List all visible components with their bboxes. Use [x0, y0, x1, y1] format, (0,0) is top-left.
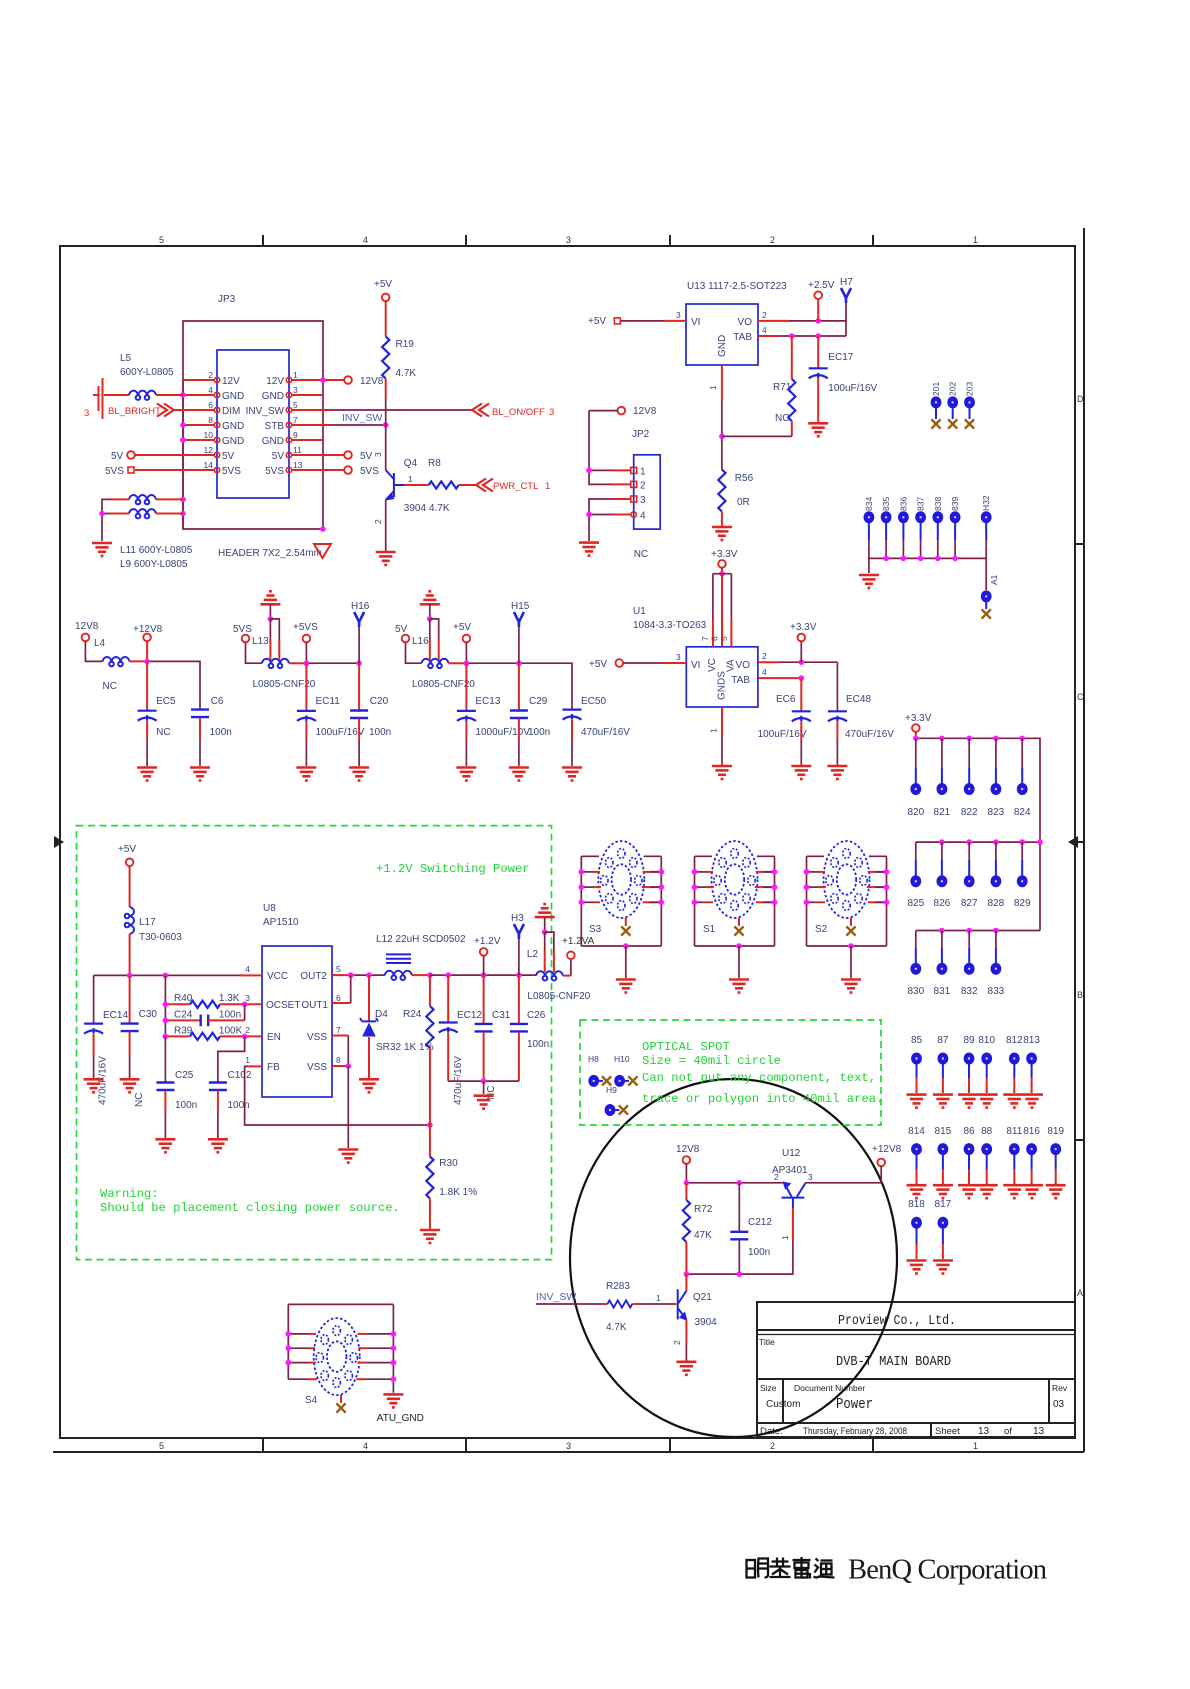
- svg-text:C26: C26: [527, 1010, 546, 1021]
- wire +12V8 rail: [144, 659, 200, 711]
- svg-text:85: 85: [911, 1035, 923, 1046]
- svg-text:GND: GND: [262, 391, 284, 402]
- capacitor EC17: [809, 336, 878, 422]
- svg-text:JP3: JP3: [218, 294, 236, 305]
- IC U8 AP1510: [245, 903, 341, 1097]
- wire VCC rail: [94, 973, 262, 1037]
- off-page connector BL_BRIGHT: [84, 378, 174, 419]
- svg-text:822: 822: [961, 807, 978, 818]
- svg-text:L17: L17: [139, 917, 156, 928]
- svg-text:C: C: [1077, 692, 1084, 702]
- svg-text:2: 2: [640, 481, 646, 492]
- svg-text:3: 3: [676, 310, 681, 320]
- test point H8: [588, 1054, 611, 1087]
- wire JP2 pins 1-2 to 12VS: [586, 411, 631, 485]
- port 12V8 (bottom): [676, 1144, 700, 1164]
- svg-text:STB: STB: [265, 421, 285, 432]
- capacitor EC50: [563, 696, 631, 766]
- svg-text:B: B: [1077, 990, 1083, 1000]
- ground under Q4: [376, 552, 396, 565]
- svg-text:C24: C24: [174, 1010, 193, 1021]
- svg-text:+2.5V: +2.5V: [808, 280, 835, 291]
- svg-text:88: 88: [981, 1126, 993, 1137]
- port 5VS: [233, 624, 252, 642]
- svg-text:U12: U12: [782, 1148, 801, 1159]
- test point 815: [933, 1126, 953, 1198]
- inductor L11: [110, 495, 183, 504]
- svg-text:100n: 100n: [527, 1039, 549, 1050]
- svg-text:1.3K: 1.3K: [219, 993, 240, 1004]
- svg-text:5VS: 5VS: [360, 466, 379, 477]
- wire +3.3V to U1 top pins: [700, 568, 731, 647]
- svg-text:2: 2: [770, 235, 775, 245]
- wire STB row: [330, 422, 389, 428]
- wire U1 GND pin1: [709, 707, 723, 765]
- svg-text:VSS: VSS: [307, 1032, 327, 1043]
- regulator U13: [686, 281, 787, 365]
- svg-text:2: 2: [672, 1340, 682, 1345]
- svg-text:823: 823: [988, 807, 1005, 818]
- test point 87: [933, 1035, 953, 1108]
- svg-text:S3: S3: [589, 924, 602, 935]
- svg-text:U8: U8: [263, 903, 276, 914]
- test pin H16: [351, 601, 370, 663]
- test point 810: [978, 1035, 995, 1093]
- socket S1: [692, 841, 778, 993]
- wire U13 VO pin2: [758, 310, 846, 324]
- test point 828: [988, 875, 1005, 909]
- svg-text:834: 834: [864, 497, 874, 511]
- test point 811: [1006, 1126, 1022, 1184]
- svg-text:3: 3: [293, 385, 298, 395]
- svg-text:600Y-L0805: 600Y-L0805: [120, 367, 174, 378]
- svg-text:3: 3: [676, 652, 681, 662]
- capacitor EC48: [828, 662, 894, 765]
- svg-text:1: 1: [656, 1293, 661, 1303]
- ground under EC13: [456, 768, 476, 781]
- svg-text:BenQ Corporation: BenQ Corporation: [848, 1555, 1047, 1586]
- svg-text:814: 814: [908, 1126, 925, 1137]
- wire +1.2V rail: [430, 972, 536, 978]
- svg-text:14: 14: [204, 460, 214, 470]
- optical spot circle: [570, 1079, 897, 1437]
- test point 201: [931, 382, 942, 429]
- capacitor C24: [163, 1004, 245, 1026]
- svg-text:Should be placement closing po: Should be placement closing power source…: [100, 1201, 400, 1215]
- test point 814: [907, 1126, 927, 1198]
- test point 836: [898, 497, 909, 540]
- svg-text:T30-0603: T30-0603: [139, 932, 182, 943]
- wire INV_SW to R283: [536, 1303, 607, 1305]
- transistor U12: [772, 1148, 813, 1240]
- svg-text:3: 3: [808, 1172, 813, 1182]
- wire test grid rail 3: [916, 928, 1040, 963]
- svg-text:100K: 100K: [219, 1026, 243, 1037]
- svg-text:Size = 40mil circle: Size = 40mil circle: [642, 1054, 781, 1068]
- svg-text:5VS: 5VS: [265, 466, 284, 477]
- svg-text:4.7K: 4.7K: [396, 368, 417, 379]
- wire +5VS rail: [304, 660, 362, 711]
- svg-text:AP1510: AP1510: [263, 917, 299, 928]
- svg-text:Proview Co., Ltd.: Proview Co., Ltd.: [838, 1313, 956, 1329]
- test point H10: [614, 1054, 638, 1087]
- socket S4: [286, 1304, 424, 1424]
- svg-text:1: 1: [640, 467, 646, 478]
- svg-text:100uF/16V: 100uF/16V: [316, 727, 365, 738]
- svg-text:100n: 100n: [219, 1010, 241, 1021]
- svg-text:819: 819: [1047, 1126, 1064, 1137]
- regulator U1: [633, 606, 758, 707]
- svg-text:10: 10: [204, 430, 214, 440]
- svg-text:H8: H8: [588, 1054, 599, 1064]
- svg-text:1.8K 1%: 1.8K 1%: [439, 1187, 477, 1198]
- test pin H7: [840, 277, 853, 336]
- svg-text:EC6: EC6: [776, 694, 796, 705]
- svg-text:NC: NC: [634, 549, 648, 560]
- svg-text:813: 813: [1023, 1035, 1040, 1046]
- wire JP2 pins 3-4 to ground: [586, 499, 631, 541]
- svg-text:4: 4: [640, 511, 646, 522]
- ground under EC5: [137, 768, 157, 781]
- svg-text:03: 03: [1053, 1399, 1065, 1410]
- svg-text:BL_BRIGHT: BL_BRIGHT: [108, 406, 161, 417]
- svg-text:5: 5: [336, 964, 341, 974]
- svg-text:trace or polygon into 40mil ar: trace or polygon into 40mil area.: [642, 1092, 883, 1106]
- power port +3.3V (test grid): [905, 713, 932, 738]
- svg-text:5VS: 5VS: [233, 624, 252, 635]
- svg-text:NC: NC: [775, 413, 789, 424]
- test point 827: [961, 875, 978, 909]
- svg-text:L11 600Y-L0805: L11 600Y-L0805: [120, 545, 193, 556]
- svg-text:4: 4: [208, 385, 213, 395]
- svg-text:OUT1: OUT1: [301, 1000, 328, 1011]
- svg-text:Rev: Rev: [1052, 1383, 1068, 1393]
- svg-text:U13 1117-2.5-SOT223: U13 1117-2.5-SOT223: [687, 281, 787, 292]
- port 12V8: [75, 621, 99, 641]
- svg-text:1: 1: [973, 235, 978, 245]
- power port +2.5V: [808, 280, 835, 321]
- svg-text:3: 3: [245, 993, 250, 1003]
- svg-text:100n: 100n: [210, 727, 232, 738]
- inductor L4: [85, 638, 147, 692]
- shared ground 812 813: [1003, 1095, 1043, 1108]
- svg-text:3904: 3904: [695, 1317, 718, 1328]
- svg-text:831: 831: [934, 986, 951, 997]
- capacitor EC6: [758, 678, 811, 765]
- svg-text:3: 3: [640, 495, 646, 506]
- svg-text:NC: NC: [156, 727, 170, 738]
- svg-text:827: 827: [961, 898, 978, 909]
- resistor R40: [163, 993, 262, 1008]
- svg-text:13: 13: [978, 1426, 990, 1437]
- test pin H3: [511, 913, 524, 975]
- green dashed box optical spot: [580, 1020, 881, 1125]
- svg-text:203: 203: [965, 382, 975, 396]
- inductor L16: [406, 616, 476, 690]
- svg-text:H9: H9: [606, 1085, 617, 1095]
- shared ground 811 816: [1003, 1185, 1043, 1198]
- svg-text:Thursday, February 28, 2008: Thursday, February 28, 2008: [803, 1426, 907, 1437]
- test point 816: [1023, 1126, 1040, 1184]
- title block: [757, 1302, 1075, 1437]
- svg-text:1: 1: [973, 1441, 978, 1451]
- svg-text:R56: R56: [735, 473, 754, 484]
- ground under EC14: [84, 1079, 104, 1092]
- svg-text:812: 812: [1006, 1035, 1023, 1046]
- svg-text:0R: 0R: [737, 497, 750, 508]
- svg-text:3: 3: [84, 408, 89, 419]
- wire JP3 left pin stubs: [135, 380, 214, 470]
- port 12VS (JP2): [618, 406, 657, 417]
- svg-text:6: 6: [208, 400, 213, 410]
- ground under EC48: [827, 766, 847, 779]
- svg-text:VI: VI: [691, 660, 700, 671]
- capacitor C31: [475, 975, 511, 1100]
- wire VSS pins to ground: [332, 1036, 351, 1149]
- svg-text:820: 820: [907, 807, 924, 818]
- svg-text:R24: R24: [403, 1009, 422, 1020]
- wire +5V rail: [464, 660, 572, 711]
- svg-text:828: 828: [988, 898, 1005, 909]
- svg-text:3: 3: [373, 452, 383, 457]
- wire JP3 right pin stubs: [292, 380, 344, 470]
- wire INV_SW to BL_ON/OFF: [330, 409, 472, 411]
- capacitor EC13: [457, 696, 530, 766]
- inductor L17: [125, 866, 183, 975]
- svg-text:5VS: 5VS: [222, 466, 241, 477]
- svg-text:6: 6: [336, 993, 341, 1003]
- svg-text:Power: Power: [836, 1397, 873, 1413]
- svg-text:829: 829: [1014, 898, 1031, 909]
- svg-text:201: 201: [931, 382, 941, 396]
- svg-text:100n: 100n: [369, 727, 391, 738]
- svg-text:EC48: EC48: [846, 694, 871, 705]
- annotation OPTICAL SPOT: [642, 1040, 883, 1106]
- capacitor C29: [510, 696, 550, 766]
- capacitor C102: [209, 1036, 252, 1138]
- wire L11 L9 left join: [99, 499, 110, 541]
- test point 817: [933, 1199, 953, 1274]
- transistor Q4: [373, 452, 429, 524]
- svg-text:836: 836: [898, 497, 908, 511]
- svg-text:1: 1: [709, 728, 719, 733]
- wire U13 TAB pin4: [758, 325, 846, 339]
- resistor R71: [722, 336, 796, 436]
- svg-text:+1.2VA: +1.2VA: [562, 936, 595, 947]
- svg-text:2: 2: [774, 1172, 779, 1182]
- svg-text:12V8: 12V8: [360, 376, 384, 387]
- svg-text:3: 3: [566, 235, 571, 245]
- svg-text:NC: NC: [486, 1086, 497, 1100]
- svg-text:Can not put any component, tex: Can not put any component, text,: [642, 1071, 876, 1085]
- port +5V (U13 input): [588, 316, 620, 327]
- svg-text:2: 2: [762, 310, 767, 320]
- power port +5V (U8): [118, 844, 136, 866]
- svg-text:5V: 5V: [111, 451, 124, 462]
- svg-text:9: 9: [293, 430, 298, 440]
- capacitor EC11: [297, 696, 365, 766]
- ground under D4: [359, 1079, 379, 1092]
- svg-text:S2: S2: [815, 924, 828, 935]
- capacitor C212: [730, 1183, 772, 1274]
- svg-text:816: 816: [1023, 1126, 1040, 1137]
- test point 818: [907, 1199, 927, 1274]
- svg-text:826: 826: [934, 898, 951, 909]
- power port +3.3V (U1 out): [790, 622, 817, 662]
- svg-text:12V: 12V: [222, 376, 240, 387]
- svg-text:12V8: 12V8: [633, 406, 657, 417]
- test point 85: [907, 1035, 927, 1108]
- svg-text:+3.3V: +3.3V: [790, 622, 817, 633]
- test point A1: [981, 574, 999, 618]
- svg-text:FB: FB: [267, 1062, 280, 1073]
- svg-text:4: 4: [363, 1441, 368, 1451]
- power port +1.2VA: [562, 936, 595, 976]
- svg-text:837: 837: [916, 497, 926, 511]
- svg-text:C29: C29: [529, 696, 548, 707]
- test point 88: [981, 1126, 993, 1184]
- svg-text:12: 12: [204, 445, 214, 455]
- svg-text:5: 5: [159, 235, 164, 245]
- svg-text:L0805-CNF20: L0805-CNF20: [527, 991, 590, 1002]
- test point 839: [950, 497, 961, 540]
- wire U13 GND pin1: [708, 365, 725, 469]
- test point 823: [988, 783, 1005, 818]
- capacitor C30: [121, 1009, 158, 1107]
- capacitor C26: [510, 975, 549, 1081]
- test pin H15: [511, 601, 530, 663]
- svg-text:835: 835: [881, 497, 891, 511]
- svg-text:DIM: DIM: [222, 406, 240, 417]
- svg-text:86: 86: [963, 1126, 975, 1137]
- svg-text:GND: GND: [222, 436, 244, 447]
- test point 834: [864, 497, 875, 540]
- capacitor C25: [156, 1036, 197, 1138]
- svg-text:NC: NC: [134, 1093, 145, 1107]
- svg-text:838: 838: [933, 497, 943, 511]
- svg-text:A1: A1: [989, 574, 999, 585]
- ground under EC17: [808, 423, 828, 436]
- svg-text:U1: U1: [633, 606, 646, 617]
- svg-text:4: 4: [762, 325, 767, 335]
- svg-text:3904: 3904: [404, 503, 427, 514]
- svg-text:+1.2V: +1.2V: [474, 936, 501, 947]
- svg-text:830: 830: [907, 986, 924, 997]
- ground under R30: [420, 1230, 440, 1243]
- svg-text:S1: S1: [703, 924, 716, 935]
- svg-text:3: 3: [549, 407, 554, 418]
- resistor R56: [718, 470, 753, 527]
- svg-text:2: 2: [373, 519, 383, 524]
- svg-text:839: 839: [950, 497, 960, 511]
- svg-text:+3.3V: +3.3V: [711, 549, 738, 560]
- svg-text:GND: GND: [222, 421, 244, 432]
- ground under R56: [712, 527, 732, 540]
- transistor Q21: [672, 1289, 717, 1345]
- svg-text:2: 2: [762, 651, 767, 661]
- socket S3: [579, 841, 665, 993]
- svg-text:2: 2: [770, 1441, 775, 1451]
- svg-text:EC11: EC11: [316, 696, 341, 707]
- resistor R24: [403, 975, 434, 1125]
- svg-text:100n: 100n: [748, 1247, 770, 1258]
- svg-text:GNDS: GNDS: [717, 671, 728, 700]
- inverted ground above L13: [260, 591, 280, 619]
- ground under VSS: [338, 1150, 358, 1163]
- test point 819: [1046, 1126, 1066, 1198]
- ground under 834 bus: [859, 575, 879, 588]
- svg-text:C6: C6: [211, 696, 224, 707]
- inductor L2: [527, 929, 591, 1002]
- svg-text:824: 824: [1014, 807, 1031, 818]
- svg-text:VI: VI: [691, 317, 700, 328]
- svg-text:SR32: SR32: [376, 1042, 401, 1053]
- svg-text:+1.2V Switching Power: +1.2V Switching Power: [376, 862, 530, 876]
- svg-text:TAB: TAB: [731, 675, 750, 686]
- resistor R39: [163, 1026, 262, 1041]
- test point H32: [981, 495, 992, 540]
- svg-text:1: 1: [708, 385, 718, 390]
- connector JP3: [214, 294, 291, 498]
- svg-text:H10: H10: [614, 1054, 630, 1064]
- resistor R8: [428, 458, 476, 514]
- test point 820: [907, 783, 924, 818]
- wire U1 TAB pin4: [758, 667, 804, 681]
- svg-text:VA: VA: [726, 659, 737, 672]
- port BL_ON/OFF: [472, 404, 554, 419]
- svg-text:Q4: Q4: [404, 458, 418, 469]
- svg-text:L12 22uH SCD0502: L12 22uH SCD0502: [376, 934, 466, 945]
- test point 831: [934, 963, 951, 997]
- test point 825: [907, 875, 924, 909]
- svg-text:+5VS: +5VS: [293, 622, 318, 633]
- svg-text:C212: C212: [748, 1217, 772, 1228]
- ground under C30: [120, 1079, 140, 1092]
- test point 822: [961, 783, 978, 818]
- svg-text:EC5: EC5: [156, 696, 176, 707]
- ground under C29: [509, 768, 529, 781]
- svg-text:Custom: Custom: [766, 1399, 800, 1410]
- power port +3.3V (above U1): [711, 549, 738, 568]
- green dashed box +1.2V switching: [77, 826, 552, 1260]
- svg-text:810: 810: [978, 1035, 995, 1046]
- test point 202: [947, 382, 958, 429]
- test point H9: [605, 1085, 628, 1116]
- svg-text:470uF/16V: 470uF/16V: [845, 729, 894, 740]
- svg-text:L4: L4: [94, 638, 106, 649]
- svg-text:HEADER 7X2_2.54mm: HEADER 7X2_2.54mm: [218, 548, 322, 559]
- svg-text:+5V: +5V: [588, 316, 606, 327]
- capacitor EC12: [439, 975, 483, 1105]
- inductor L5: [104, 353, 183, 400]
- port 5V (right): [344, 451, 372, 462]
- svg-text:87: 87: [937, 1035, 949, 1046]
- svg-text:825: 825: [907, 898, 924, 909]
- wire JP3 outer loop: [183, 321, 323, 529]
- svg-text:VSS: VSS: [307, 1062, 327, 1073]
- svg-text:4: 4: [245, 964, 250, 974]
- test point 832: [961, 963, 978, 997]
- ground under C31: [474, 1096, 494, 1109]
- port 5V (left): [111, 451, 135, 462]
- test point 835: [881, 497, 892, 540]
- svg-text:of: of: [1004, 1426, 1012, 1437]
- svg-text:12V: 12V: [266, 376, 284, 387]
- wire OUT1 riser: [332, 975, 351, 1003]
- ground under C25: [155, 1139, 175, 1152]
- test point 837: [915, 497, 926, 540]
- svg-text:EC17: EC17: [828, 352, 853, 363]
